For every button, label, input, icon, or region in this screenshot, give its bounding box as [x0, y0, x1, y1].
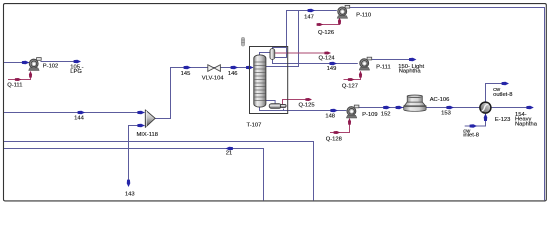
- svg-text:Naphtha: Naphtha: [399, 69, 422, 75]
- column tower T-107: [254, 55, 266, 107]
- pump P-102: [29, 58, 42, 71]
- wire: column bottoms to P-109, stream 148: [260, 106, 347, 111]
- energy wire Q-111: [8, 72, 31, 80]
- wire: P-110 outlet along top and right edge: [349, 8, 544, 201]
- arrow Q-126 mid: [317, 23, 324, 26]
- wire: P-111 outlet stream 150: [371, 59, 415, 61]
- svg-text:Q-126: Q-126: [318, 30, 334, 36]
- arrow 105-LPG terminal: [74, 60, 81, 64]
- valve VLV-104: [208, 65, 221, 72]
- arrow Q-111 mid: [15, 78, 22, 81]
- arrow 154 terminal: [526, 106, 533, 110]
- svg-text:145: 145: [181, 71, 191, 77]
- svg-text:P-111: P-111: [376, 64, 391, 70]
- svg-text:144: 144: [74, 116, 84, 122]
- arrow 144 terminal: [137, 111, 144, 115]
- wire: feed into P-102: [4, 62, 30, 64]
- wire: column top to condenser: [260, 53, 270, 57]
- svg-text:AC-106: AC-106: [430, 97, 450, 103]
- arrow 146 terminal: [246, 66, 253, 70]
- arrow stream 21 (left): [226, 147, 233, 151]
- pump P-111: [359, 57, 372, 70]
- wire: cw outlet-8: [486, 84, 509, 102]
- energy wire Q-126: [318, 18, 340, 25]
- condenser vessel: [270, 49, 275, 60]
- wire: condenser bottom return U: [275, 48, 287, 58]
- svg-text:Naphtha: Naphtha: [515, 121, 538, 127]
- svg-text:MIX-118: MIX-118: [136, 132, 157, 138]
- svg-text:Q-128: Q-128: [326, 137, 342, 143]
- wire: reboiler bottom stub: [283, 109, 285, 111]
- svg-text:Q-125: Q-125: [298, 102, 314, 108]
- energy wire Q-128: [330, 119, 350, 133]
- svg-text:Q-111: Q-111: [7, 82, 22, 88]
- wire: mixer outlet up to valve feed, streams 145/146: [155, 68, 253, 119]
- wire: stream 21 line to bottom edge: [4, 149, 264, 201]
- svg-text:149: 149: [327, 66, 337, 72]
- pump P-110: [337, 5, 350, 18]
- wire: stream 153 AC-106 to E-123: [426, 107, 480, 109]
- arrow 153 mid: [446, 106, 453, 110]
- arrow cw inlet vertical: [484, 114, 488, 121]
- arrow Q-126 up: [338, 18, 341, 25]
- arrow 144 mid: [78, 111, 85, 115]
- svg-text:P-109: P-109: [362, 112, 377, 118]
- svg-text:152: 152: [381, 111, 391, 117]
- svg-text:outlet-8: outlet-8: [493, 92, 512, 98]
- svg-text:P-102: P-102: [43, 63, 58, 69]
- svg-text:147: 147: [304, 14, 314, 20]
- arrow feed P-102: [22, 61, 29, 65]
- heat exchanger E-123: [480, 102, 491, 113]
- arrow 148 mid: [330, 109, 337, 113]
- svg-text:LPG: LPG: [70, 69, 82, 75]
- energy wire Q-127: [344, 71, 361, 79]
- arrow Q-127 up: [359, 71, 362, 78]
- svg-text:21: 21: [226, 151, 232, 157]
- mini column anchor icon: [241, 37, 244, 46]
- wire: column side draw to reboiler: [266, 101, 275, 105]
- wire: cw inlet-8: [465, 114, 486, 126]
- wire: stream 144 into MIX-118: [4, 112, 145, 114]
- sub-flowsheet box T-107: [250, 47, 288, 114]
- svg-text:E-123: E-123: [495, 117, 510, 123]
- arrow 145 mid: [184, 66, 191, 70]
- arrow 147 mid: [308, 9, 315, 13]
- arrow Q-111 up: [29, 71, 32, 78]
- pump P-109: [346, 105, 359, 118]
- wire: reflux return from 147 line into column: [266, 11, 299, 67]
- arrow Q-127 mid: [348, 78, 355, 81]
- svg-text:T-107: T-107: [247, 123, 262, 129]
- svg-text:153: 153: [441, 111, 451, 117]
- wire: stream 154 E-123 outlet: [491, 107, 533, 109]
- svg-text:148: 148: [325, 114, 335, 120]
- energy wire Q-125: [283, 100, 312, 105]
- arrow 152 mid: [383, 106, 390, 110]
- wire: P-109 outlet stream 152 to AC-106: [356, 107, 403, 109]
- svg-text:P-110: P-110: [356, 12, 371, 18]
- svg-text:146: 146: [228, 71, 238, 77]
- energy wire Q-124: [275, 52, 330, 54]
- svg-text:Q-124: Q-124: [319, 56, 336, 62]
- arrow 149 mid: [330, 62, 337, 66]
- svg-text:inlet-8: inlet-8: [463, 133, 479, 139]
- wire: stream 149 condenser to P-111: [273, 59, 358, 64]
- wire: second mixer inlet riser and stream 143: [129, 126, 145, 187]
- svg-text:VLV-104: VLV-104: [202, 75, 225, 81]
- arrow cw inlet horizontal: [470, 124, 477, 128]
- arrow cw outlet terminal: [502, 82, 509, 86]
- arrow Q-128 up: [348, 118, 351, 125]
- arrow Q-128 mid: [334, 131, 341, 134]
- arrow 143 terminal (down): [127, 180, 131, 187]
- wire: P-102 outlet to 105-LPG: [41, 61, 81, 63]
- mixer MIX-118: [145, 110, 155, 128]
- arrow 152 terminal: [396, 106, 403, 110]
- arrow mixer 2nd inlet: [137, 124, 144, 128]
- arrow Q-124 terminal: [324, 51, 331, 54]
- svg-text:Q-127: Q-127: [342, 84, 358, 90]
- wire: recycle line A to bottom edge: [4, 142, 314, 201]
- arrow Q-125 terminal: [305, 98, 312, 101]
- arrow 146 mid: [231, 66, 238, 70]
- arrow 150 terminal: [409, 58, 416, 62]
- reboiler vessel: [269, 104, 286, 109]
- svg-text:143: 143: [125, 192, 135, 198]
- air cooler AC-106: [404, 95, 426, 111]
- wire: stream 147 from condenser to P-110: [273, 11, 337, 53]
